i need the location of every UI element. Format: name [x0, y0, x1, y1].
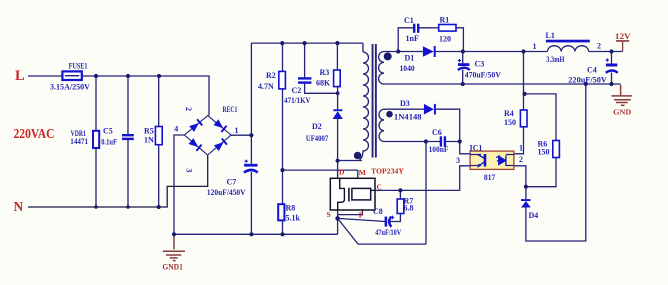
svg-text:L: L — [15, 68, 25, 84]
svg-text:2: 2 — [519, 155, 523, 164]
svg-text:C2: C2 — [292, 86, 302, 95]
svg-text:D2: D2 — [312, 122, 322, 131]
svg-text:6.8: 6.8 — [404, 204, 414, 213]
svg-text:R3: R3 — [320, 68, 330, 77]
svg-text:1N4148: 1N4148 — [394, 113, 422, 122]
svg-text:C5: C5 — [103, 126, 113, 135]
svg-text:R4: R4 — [504, 109, 514, 118]
svg-text:220uF/50V: 220uF/50V — [568, 76, 607, 85]
svg-text:12V: 12V — [615, 31, 631, 41]
svg-text:0.1uF: 0.1uF — [101, 137, 117, 146]
svg-text:D3: D3 — [400, 99, 410, 108]
svg-text:FUSE1: FUSE1 — [69, 62, 88, 71]
svg-text:4.7N: 4.7N — [258, 82, 274, 91]
svg-text:1N: 1N — [144, 135, 154, 144]
svg-text:REC1: REC1 — [223, 105, 238, 114]
svg-text:68K: 68K — [316, 79, 331, 88]
svg-text:M: M — [359, 168, 366, 177]
svg-text:470uF/50V: 470uF/50V — [465, 70, 501, 79]
svg-text:IC1: IC1 — [470, 144, 483, 153]
svg-text:R5: R5 — [144, 126, 154, 135]
svg-text:14471: 14471 — [70, 137, 88, 146]
svg-text:1040: 1040 — [400, 64, 415, 73]
svg-text:47uF/10V: 47uF/10V — [375, 228, 401, 237]
svg-text:C7: C7 — [227, 178, 237, 187]
svg-text:5.1k: 5.1k — [286, 213, 301, 222]
svg-text:120uF/450V: 120uF/450V — [207, 188, 246, 197]
svg-text:R2: R2 — [266, 71, 276, 80]
svg-text:D: D — [339, 168, 345, 177]
svg-text:150: 150 — [538, 148, 550, 157]
svg-text:R1: R1 — [440, 16, 450, 25]
svg-text:GND: GND — [613, 108, 631, 117]
svg-text:3.3mH: 3.3mH — [546, 55, 565, 64]
svg-text:C8: C8 — [373, 207, 383, 216]
svg-text:3: 3 — [184, 168, 193, 172]
svg-text:1: 1 — [533, 42, 537, 51]
svg-text:D1: D1 — [405, 54, 415, 63]
svg-text:C1: C1 — [404, 16, 414, 25]
svg-text:C4: C4 — [587, 66, 597, 75]
svg-text:2: 2 — [184, 107, 193, 111]
svg-text:2: 2 — [597, 41, 601, 50]
svg-text:TOP234Y: TOP234Y — [371, 167, 404, 176]
svg-text:C6: C6 — [432, 128, 442, 137]
svg-text:UF4007: UF4007 — [306, 134, 328, 143]
svg-text:R8: R8 — [286, 204, 296, 213]
svg-text:3.15A/250V: 3.15A/250V — [50, 82, 90, 91]
svg-text:D4: D4 — [529, 211, 539, 220]
svg-text:GND1: GND1 — [162, 263, 183, 272]
svg-text:C: C — [377, 182, 382, 191]
svg-text:100nF: 100nF — [429, 145, 449, 154]
svg-text:3: 3 — [456, 156, 460, 165]
svg-text:150: 150 — [504, 118, 516, 127]
svg-text:N: N — [14, 199, 24, 214]
svg-text:817: 817 — [484, 173, 495, 182]
svg-text:1: 1 — [519, 144, 523, 153]
svg-text:4: 4 — [174, 124, 178, 133]
svg-text:L1: L1 — [546, 31, 555, 40]
svg-text:S: S — [327, 210, 331, 219]
svg-text:220VAC: 220VAC — [14, 126, 55, 141]
svg-text:1: 1 — [235, 126, 239, 135]
svg-text:471/1KV: 471/1KV — [284, 96, 311, 105]
svg-text:120: 120 — [439, 34, 451, 43]
svg-text:C3: C3 — [475, 59, 485, 68]
svg-text:1nF: 1nF — [406, 34, 419, 43]
svg-text:F: F — [359, 211, 364, 220]
